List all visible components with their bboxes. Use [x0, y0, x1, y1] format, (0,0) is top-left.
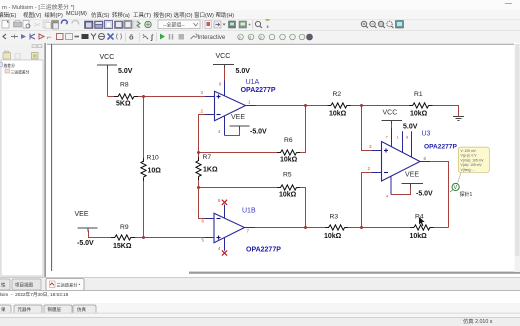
horizontal scrollbar thumb: [189, 272, 520, 274]
wire U1A VCC stub: [224, 67, 226, 81]
spreadsheet view: [0, 290, 520, 305]
wire U3 VEE hook: [391, 188, 411, 195]
wire R10 bottom to node B: [143, 181, 145, 238]
probe 探针1: [450, 173, 473, 198]
wire R3 to R4: [348, 227, 410, 229]
wire VCC1 stub to R8: [107, 68, 109, 97]
resistor R8 5KΩ: [118, 94, 134, 99]
ground: [453, 117, 464, 121]
wire node A to U1A +in: [144, 96, 206, 98]
mouse cursor: [419, 217, 425, 227]
svg-text:5.0V: 5.0V: [236, 68, 251, 75]
svg-text:R6: R6: [284, 137, 293, 144]
svg-text:7: 7: [386, 135, 389, 140]
svg-text:R3: R3: [330, 214, 339, 221]
wire R2 to R1: [351, 105, 410, 107]
svg-text:V(freq): --: V(freq): --: [461, 168, 475, 172]
document tab bar: [0, 277, 520, 291]
svg-text:4: 4: [218, 246, 221, 251]
svg-text:1KΩ: 1KΩ: [203, 167, 218, 174]
svg-text:10kΩ: 10kΩ: [329, 111, 347, 118]
svg-text:1: 1: [397, 135, 400, 140]
svg-text:10Ω: 10Ω: [148, 168, 162, 175]
resistor R2 10kΩ: [331, 103, 347, 108]
svg-text:2: 2: [201, 109, 204, 114]
resistor R1 10kΩ: [413, 103, 429, 108]
power VCC (U3): [382, 121, 402, 125]
svg-text:V(rms): 105 mV: V(rms): 105 mV: [461, 158, 485, 162]
resistor black leads: [111, 97, 434, 238]
svg-text:R8: R8: [120, 82, 129, 89]
svg-text:10kΩ: 10kΩ: [410, 111, 428, 118]
vertical scrollbar track: [515, 44, 520, 272]
svg-text:10kΩ: 10kΩ: [279, 191, 297, 198]
svg-text:8: 8: [219, 82, 222, 87]
wire U1A output row: [256, 105, 328, 107]
svg-text:8: 8: [406, 135, 409, 140]
wire U1A -in left and down to R7/R6 node: [199, 115, 206, 158]
svg-text:OPA2277P: OPA2277P: [241, 87, 276, 94]
svg-text:3: 3: [369, 144, 372, 149]
wire R3 node up to U3 -in: [362, 173, 372, 228]
power VEE (left): [78, 228, 98, 232]
junction U1B out / R5: [304, 226, 307, 229]
resistor R9 15KΩ: [115, 235, 131, 240]
status bar: [0, 317, 520, 326]
junction R5/R7 node: [197, 186, 200, 189]
resistor R3 10kΩ: [329, 225, 345, 230]
wire R6 node to R6 left: [199, 152, 278, 154]
svg-text:10kΩ: 10kΩ: [324, 233, 342, 240]
resistor R7 1KΩ: [196, 161, 201, 177]
svg-text:4: 4: [218, 129, 221, 134]
window title bar: [0, 0, 520, 10]
svg-text:5.0V: 5.0V: [403, 124, 418, 131]
svg-text:U1A: U1A: [246, 79, 260, 86]
svg-text:VCC: VCC: [100, 54, 115, 61]
svg-text:15KΩ: 15KΩ: [113, 243, 132, 250]
svg-text:5.0V: 5.0V: [118, 68, 133, 75]
resistor R4 10kΩ: [414, 225, 430, 230]
op-amp U3: [368, 128, 458, 199]
svg-text:R10: R10: [147, 155, 160, 162]
svg-text:VCC: VCC: [216, 53, 231, 60]
svg-text:1: 1: [248, 100, 251, 105]
svg-text:V: V: [454, 185, 458, 191]
svg-text:3: 3: [201, 90, 204, 95]
wire R5 row: [199, 187, 278, 189]
svg-text:U1B: U1B: [242, 208, 256, 215]
menu bar: [0, 10, 520, 19]
svg-text:R7: R7: [203, 154, 212, 161]
svg-text:R2: R2: [333, 91, 342, 98]
svg-text:探针1: 探针1: [460, 191, 473, 198]
wire R8 right to node A: [138, 96, 144, 98]
wire node A down to R10: [143, 97, 145, 159]
svg-text:R5: R5: [283, 172, 292, 179]
svg-text:8: 8: [218, 198, 221, 203]
svg-text:VEE: VEE: [231, 114, 245, 121]
wire node B to U1B +in: [144, 237, 205, 239]
svg-text:2: 2: [368, 166, 371, 171]
junction R2 / U3 +in: [360, 104, 363, 107]
svg-text:5: 5: [202, 238, 205, 243]
power VEE (U1A): [230, 126, 250, 130]
power VCC (left): [97, 65, 117, 69]
svg-text:10kΩ: 10kΩ: [410, 233, 428, 240]
resistor R6 10kΩ: [281, 150, 297, 155]
svg-text:V(dc): 105 mV: V(dc): 105 mV: [461, 163, 483, 167]
wire R7 bottom to R5 node and down to U1B -in: [199, 180, 205, 219]
power VCC (U1A): [213, 65, 234, 69]
svg-text:V(p-p): 0 V: V(p-p): 0 V: [461, 154, 478, 158]
svg-text:OPA2277P: OPA2277P: [424, 144, 457, 151]
wire U3 VCC stub: [391, 123, 393, 132]
svg-text:-5.0V: -5.0V: [77, 240, 94, 247]
junction node B: [142, 236, 145, 239]
svg-text:6: 6: [424, 156, 427, 161]
wire R4 to output column: [434, 227, 449, 229]
probe readout box: [458, 147, 489, 172]
svg-text:V: 105 mV: V: 105 mV: [461, 149, 477, 153]
svg-text:5KΩ: 5KΩ: [116, 101, 131, 108]
wire U1B output row to R3: [255, 227, 326, 229]
sheet border frame top: [47, 43, 514, 45]
svg-text:VEE: VEE: [75, 211, 89, 218]
svg-text:4: 4: [386, 194, 389, 199]
wire R2 node down to U3 +in: [362, 106, 372, 151]
wire VEE1 stub down: [89, 231, 112, 238]
svg-text:R9: R9: [120, 224, 129, 231]
junction U1A out / R6: [304, 104, 307, 107]
svg-text:7: 7: [247, 229, 250, 234]
svg-text:VEE: VEE: [405, 172, 419, 179]
wire U1A VEE hook: [225, 130, 240, 136]
svg-text:10kΩ: 10kΩ: [280, 157, 298, 164]
junction R3 / U3 -in: [360, 226, 363, 229]
svg-text:VCC: VCC: [383, 110, 398, 117]
power VEE (U3): [402, 184, 424, 188]
wire R1 to ground: [432, 106, 458, 117]
op-amp input/output pin stubs (navy): [205, 97, 431, 238]
svg-text:R1: R1: [414, 91, 423, 98]
wire R8 left lead: [108, 96, 115, 98]
schematic canvas: [45, 43, 520, 277]
wire R6 right up to output: [300, 106, 306, 153]
svg-text:-5.0V: -5.0V: [250, 129, 267, 136]
op-amp U1A: [201, 79, 276, 136]
junction R6/R7 node: [197, 151, 200, 154]
sheet border frame left: [51, 44, 53, 271]
wire R9 right to node B: [135, 237, 144, 239]
resistor R5 10kΩ: [281, 185, 297, 190]
resistor R10 10Ω: [141, 161, 146, 177]
svg-text:6: 6: [202, 219, 205, 224]
svg-text:-5.0V: -5.0V: [416, 191, 433, 198]
toolbars: [0, 19, 520, 31]
vertical scrollbar thumb: [515, 44, 519, 256]
wire U3 output down to R4: [430, 162, 449, 228]
svg-text:U3: U3: [422, 131, 431, 138]
junction node A: [142, 95, 145, 98]
op-amp U1B: [202, 198, 282, 256]
left design toolbox panel: [0, 43, 44, 277]
svg-text:OPA2277P: OPA2277P: [246, 247, 281, 254]
wire R5 right down to U1B output: [300, 188, 306, 228]
